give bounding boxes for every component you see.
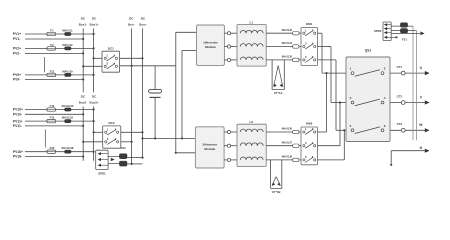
svg-text:MAU1J7: MAU1J7	[282, 140, 293, 144]
svg-text:Bus+: Bus+	[139, 22, 147, 26]
svg-text:MAU1J8: MAU1J8	[282, 155, 293, 159]
svg-text:MAU1J9: MAU1J9	[62, 69, 73, 73]
svg-text:Bus1-: Bus1-	[79, 22, 87, 26]
svg-text:MAU1J2: MAU1J2	[62, 43, 73, 47]
svg-text:SPD1: SPD1	[98, 171, 106, 175]
svg-text:PV18-: PV18-	[13, 155, 22, 159]
svg-text:PV1+: PV1+	[13, 32, 21, 36]
svg-text:CT*1A: CT*1A	[274, 91, 284, 95]
svg-text:CT3: CT3	[397, 122, 403, 126]
svg-text:F21: F21	[402, 37, 407, 41]
svg-text:DC1: DC1	[108, 46, 114, 50]
svg-text:F1: F1	[50, 28, 54, 32]
svg-text:F22: F22	[50, 146, 55, 150]
svg-text:PV9-: PV9-	[13, 78, 20, 82]
svg-text:PV10-: PV10-	[13, 113, 22, 117]
svg-text:PV11+: PV11+	[13, 119, 23, 123]
svg-text:CT*1B: CT*1B	[272, 190, 281, 194]
svg-text:F2: F2	[50, 43, 54, 47]
svg-text:SPD2: SPD2	[374, 29, 382, 33]
svg-text:QS1: QS1	[365, 49, 372, 53]
svg-text:1#Inverter: 1#Inverter	[203, 40, 219, 44]
svg-text:Bus1+: Bus1+	[90, 22, 99, 26]
svg-text:KM1: KM1	[306, 22, 313, 26]
svg-text:F13: F13	[50, 116, 55, 120]
svg-text:MAU1J4: MAU1J4	[282, 41, 293, 45]
svg-text:2#Inverter: 2#Inverter	[202, 142, 218, 146]
svg-text:MAU1J3: MAU1J3	[282, 28, 293, 32]
svg-text:Bus-: Bus-	[128, 22, 135, 26]
svg-text:PV9+: PV9+	[13, 73, 21, 77]
svg-text:PV2-: PV2-	[13, 52, 20, 56]
svg-text:MAU1J1: MAU1J1	[62, 28, 73, 32]
svg-text:F12: F12	[50, 104, 55, 108]
svg-text:MAU1J6: MAU1J6	[282, 127, 293, 131]
svg-text:L1: L1	[250, 20, 254, 24]
svg-text:Module: Module	[204, 147, 215, 151]
svg-text:PV10+: PV10+	[13, 108, 23, 112]
svg-text:MAU1J11: MAU1J11	[62, 116, 74, 120]
svg-text:F11: F11	[50, 69, 55, 73]
svg-text:MAU1J5: MAU1J5	[282, 55, 293, 59]
svg-text:CT2: CT2	[397, 94, 403, 98]
svg-text:PV11-: PV11-	[13, 124, 22, 128]
svg-text:PV18+: PV18+	[13, 150, 23, 154]
svg-text:CT1: CT1	[397, 65, 403, 69]
svg-text:MAU1J18: MAU1J18	[62, 146, 74, 150]
svg-text:PV2+: PV2+	[13, 47, 21, 51]
svg-text:L2: L2	[250, 120, 254, 124]
svg-text:F23: F23	[121, 146, 126, 150]
svg-text:MAU1J10: MAU1J10	[62, 104, 74, 108]
svg-text:KM2: KM2	[306, 122, 313, 126]
svg-text:PV1-: PV1-	[13, 37, 20, 41]
svg-text:Bus2-: Bus2-	[79, 100, 87, 104]
svg-text:Bus2+: Bus2+	[90, 100, 99, 104]
svg-text:DC2: DC2	[108, 121, 114, 125]
svg-text:Module: Module	[205, 45, 216, 49]
